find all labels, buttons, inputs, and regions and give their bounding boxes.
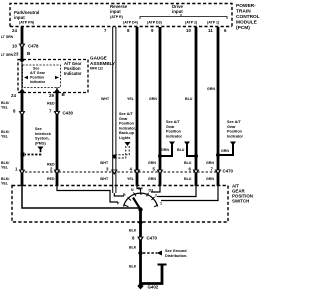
svg-text:LT GRN: LT GRN bbox=[1, 53, 14, 57]
svg-text:Gear: Gear bbox=[227, 125, 236, 129]
svg-text:YEL: YEL bbox=[127, 97, 135, 101]
stub A to GRN wire bbox=[160, 145, 172, 157]
wire YEL bbox=[136, 27, 139, 186]
contact D3 bbox=[147, 193, 149, 197]
switch feed GRN to 1 bbox=[161, 186, 218, 201]
svg-text:LT GRN: LT GRN bbox=[1, 35, 14, 39]
A/T gear position switch dashed box bbox=[12, 186, 228, 223]
arrow ground distribution bbox=[157, 251, 163, 256]
dashed branch interlock bbox=[25, 150, 41, 155]
svg-text:See Ground: See Ground bbox=[165, 249, 187, 253]
svg-text:See A/T: See A/T bbox=[166, 120, 180, 124]
wiper pivot bbox=[138, 207, 142, 211]
svg-text:2: 2 bbox=[155, 194, 157, 198]
svg-text:Indicator: Indicator bbox=[64, 71, 82, 76]
see A/T gear position indicator inner dashed box bbox=[23, 65, 61, 88]
connector C470 dashed line bbox=[25, 171, 220, 173]
svg-text:(ATP 1): (ATP 1) bbox=[207, 21, 220, 25]
contact D4 bbox=[140, 191, 143, 195]
arrow GRN stub C bbox=[230, 142, 236, 146]
svg-text:MODULE: MODULE bbox=[236, 20, 258, 26]
svg-text:YEL: YEL bbox=[127, 177, 135, 181]
gauge assembly dashed box bbox=[18, 60, 88, 93]
svg-text:BLK/: BLK/ bbox=[1, 101, 9, 105]
svg-text:TRAIN: TRAIN bbox=[236, 9, 251, 15]
svg-text:MFR 112: MFR 112 bbox=[90, 67, 103, 71]
svg-text:Lights: Lights bbox=[119, 136, 130, 140]
svg-text:(ATP PN): (ATP PN) bbox=[19, 21, 35, 25]
contact P bbox=[125, 205, 129, 207]
svg-text:Indicator: Indicator bbox=[227, 134, 244, 138]
wire LT GRN PCM pin24 to gauge bbox=[21, 27, 24, 60]
switch feed BLU to 2 bbox=[157, 186, 196, 197]
dashed branch to ground distribution bbox=[143, 252, 157, 254]
switch feed GRN to D3 bbox=[151, 186, 160, 192]
stub B to BLU wire bbox=[187, 145, 196, 157]
contact 2 bbox=[152, 197, 155, 200]
svg-text:See A/T: See A/T bbox=[119, 112, 133, 116]
svg-text:C430: C430 bbox=[63, 111, 74, 116]
ground G402 bbox=[137, 283, 143, 290]
svg-text:10: 10 bbox=[12, 44, 17, 49]
svg-text:C470: C470 bbox=[223, 169, 234, 174]
svg-text:BLK: BLK bbox=[129, 246, 137, 250]
svg-text:BLU: BLU bbox=[184, 177, 192, 181]
connector C470 pin 5 bbox=[157, 170, 164, 175]
junction dot BLU bbox=[194, 154, 198, 158]
terminal bar bbox=[158, 264, 167, 266]
wire stub gauge right bbox=[56, 88, 58, 93]
svg-text:Position: Position bbox=[166, 130, 182, 134]
svg-text:See: See bbox=[35, 127, 42, 131]
svg-text:GRN: GRN bbox=[207, 87, 215, 91]
switch feed WHT to R bbox=[114, 193, 124, 196]
svg-text:(ATP D4): (ATP D4) bbox=[123, 21, 139, 25]
svg-text:BLK/: BLK/ bbox=[1, 130, 9, 134]
svg-text:Position: Position bbox=[227, 130, 243, 134]
svg-text:A/T Gear: A/T Gear bbox=[30, 71, 46, 75]
contact N bbox=[134, 193, 137, 197]
connector C430 pin 8 bbox=[19, 111, 26, 116]
svg-text:GAUGE: GAUGE bbox=[90, 56, 107, 61]
wire BLU bbox=[195, 27, 198, 186]
wire BLK/YEL gauge to switch bbox=[21, 92, 24, 187]
connector C470 pin 8 bottom bbox=[137, 237, 144, 242]
rotary switch arc bbox=[124, 193, 158, 206]
svg-text:WHT: WHT bbox=[101, 97, 110, 101]
wire WHT reverse hollow bbox=[113, 27, 116, 193]
svg-text:GRN: GRN bbox=[221, 149, 229, 153]
svg-text:N: N bbox=[131, 188, 134, 192]
connector C470 pin 6 bbox=[193, 170, 200, 175]
svg-text:Distribution.: Distribution. bbox=[165, 254, 187, 258]
svg-text:1: 1 bbox=[160, 202, 162, 206]
svg-text:BLU: BLU bbox=[177, 148, 185, 152]
arrow to interlock bbox=[38, 147, 44, 151]
svg-text:Gear: Gear bbox=[166, 125, 175, 129]
connector C470 pin 3 bbox=[111, 170, 118, 175]
connector C470 pin 2 bbox=[54, 170, 61, 175]
junction dot GRN bbox=[158, 154, 162, 158]
junction gauge exit left bbox=[20, 89, 25, 95]
svg-text:YEL: YEL bbox=[1, 106, 9, 110]
svg-text:GRN: GRN bbox=[148, 161, 156, 165]
svg-text:Position: Position bbox=[119, 122, 135, 126]
PCM label bbox=[236, 3, 260, 31]
svg-text:GRN: GRN bbox=[149, 97, 157, 101]
svg-text:23: 23 bbox=[14, 52, 19, 57]
svg-text:BLK/: BLK/ bbox=[1, 177, 9, 181]
svg-text:(ATP 2): (ATP 2) bbox=[185, 21, 198, 25]
labels below C470 bbox=[1, 177, 9, 186]
svg-text:(PCM): (PCM) bbox=[236, 25, 250, 31]
svg-text:(ATP D3): (ATP D3) bbox=[147, 21, 163, 25]
svg-text:BLU: BLU bbox=[185, 97, 193, 101]
A/T Gear Position Indicator label bbox=[64, 61, 82, 76]
svg-text:RED: RED bbox=[47, 177, 55, 181]
svg-text:Position: Position bbox=[30, 76, 44, 80]
svg-text:Indicator,: Indicator, bbox=[119, 126, 136, 130]
svg-text:(ATP R): (ATP R) bbox=[110, 15, 124, 19]
junction square interlock bbox=[21, 153, 25, 157]
label BLK/YEL bbox=[1, 101, 9, 110]
arrow GRN stub A bbox=[169, 142, 175, 146]
svg-text:BLK/: BLK/ bbox=[1, 161, 9, 165]
stub C to GRN wire bbox=[218, 145, 233, 156]
svg-text:Indicator: Indicator bbox=[30, 80, 46, 84]
svg-text:Indicator: Indicator bbox=[166, 134, 183, 138]
svg-text:BLK: BLK bbox=[129, 229, 137, 233]
contact R bbox=[128, 198, 132, 201]
node Reverse input (ATP R) bbox=[110, 4, 128, 19]
svg-text:GRN: GRN bbox=[161, 148, 169, 152]
svg-text:GRN: GRN bbox=[206, 177, 214, 181]
svg-text:SWITCH: SWITCH bbox=[232, 199, 249, 204]
svg-text:(PMS): (PMS) bbox=[35, 141, 46, 145]
contact 1 bbox=[154, 205, 158, 207]
junction gauge exit right bbox=[55, 89, 60, 95]
label BLK/YEL bbox=[1, 161, 9, 170]
svg-text:D4: D4 bbox=[138, 187, 143, 191]
svg-text:WHT: WHT bbox=[100, 161, 109, 165]
svg-text:C470: C470 bbox=[147, 236, 158, 241]
svg-text:D3: D3 bbox=[149, 189, 154, 193]
svg-text:BLK: BLK bbox=[129, 265, 137, 269]
wire GRN 2 bbox=[217, 27, 220, 186]
junction switch box exit bbox=[138, 220, 143, 226]
svg-text:YEL: YEL bbox=[1, 182, 9, 186]
wire GRN bbox=[159, 27, 162, 186]
arrow right inner box bbox=[55, 76, 59, 80]
see interlock system note bbox=[35, 127, 52, 145]
svg-text:WHT: WHT bbox=[100, 177, 109, 181]
switch feed YEL to D4 bbox=[137, 186, 141, 191]
label BLK/YEL bbox=[1, 130, 9, 139]
svg-text:24: 24 bbox=[12, 28, 17, 33]
connector C478 bbox=[19, 44, 26, 49]
svg-text:RED: RED bbox=[47, 102, 55, 106]
svg-text:G402: G402 bbox=[148, 285, 159, 290]
see ground distribution note bbox=[165, 249, 187, 258]
connector C430 pin 7 bbox=[54, 111, 61, 116]
svg-text:input: input bbox=[14, 15, 25, 20]
svg-text:BLU: BLU bbox=[184, 161, 192, 165]
connector C470 pin 1 bbox=[19, 170, 26, 175]
svg-text:POWER-: POWER- bbox=[236, 3, 256, 9]
svg-text:Back-up: Back-up bbox=[119, 131, 135, 135]
svg-text:input: input bbox=[172, 9, 183, 14]
see A/T gear position indicator note middle bbox=[166, 120, 183, 138]
svg-text:29: 29 bbox=[49, 93, 54, 98]
svg-text:input: input bbox=[110, 9, 121, 14]
connector C470 pin 7 bbox=[215, 170, 222, 175]
svg-text:R: R bbox=[123, 193, 126, 197]
svg-text:11: 11 bbox=[208, 28, 213, 33]
svg-text:Interlock: Interlock bbox=[35, 132, 52, 136]
PCM module U1 dashed box bbox=[10, 4, 232, 27]
dashed hollow branch to WHT wire bbox=[116, 146, 129, 158]
svg-text:Gear: Gear bbox=[119, 117, 128, 121]
switch output wire BLK bbox=[139, 210, 142, 286]
svg-text:GRN: GRN bbox=[206, 161, 214, 165]
wiper arm bbox=[133, 198, 141, 210]
svg-text:C478: C478 bbox=[28, 44, 39, 49]
svg-text:See A/T: See A/T bbox=[227, 120, 241, 124]
svg-text:YEL: YEL bbox=[1, 166, 9, 170]
junction dot GRN 2 bbox=[216, 153, 220, 157]
see A/T gear position indicator note right bbox=[227, 120, 244, 138]
svg-text:ASSEMBLY: ASSEMBLY bbox=[90, 61, 115, 66]
junction gauge entry bbox=[20, 57, 25, 63]
svg-text:System,: System, bbox=[35, 137, 50, 141]
svg-text:See: See bbox=[33, 67, 39, 71]
see A/T gear position indicator, back-up lights note bbox=[119, 112, 136, 140]
switch feed RED to P bbox=[57, 186, 118, 202]
connector C470 pin 4 bbox=[134, 170, 141, 175]
junction dot WHT bbox=[112, 155, 116, 159]
svg-text:GRN: GRN bbox=[148, 177, 156, 181]
svg-text:24: 24 bbox=[11, 93, 16, 98]
branch to second ground wire bbox=[141, 266, 163, 284]
node Drive input brace bbox=[172, 4, 184, 14]
arrow BLU stub B bbox=[184, 142, 190, 146]
svg-text:10: 10 bbox=[186, 28, 191, 33]
wire RED gauge to switch bbox=[56, 92, 59, 187]
svg-text:YEL: YEL bbox=[1, 135, 9, 139]
wire through gauge left bbox=[21, 63, 23, 89]
gauge assembly label bbox=[90, 56, 115, 67]
arrow left inner box bbox=[24, 76, 28, 80]
junction ground distribution bbox=[138, 251, 142, 255]
svg-text:CONTROL: CONTROL bbox=[236, 14, 260, 20]
node Park/neutral input (ATP PN) bbox=[14, 10, 39, 25]
switch common wire from BLK/YEL bbox=[22, 186, 140, 208]
switch label bbox=[232, 184, 253, 204]
arrow back-up lights bbox=[125, 142, 131, 146]
